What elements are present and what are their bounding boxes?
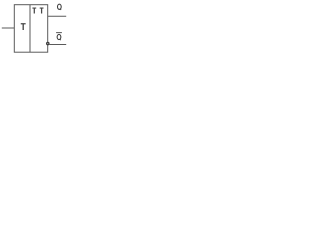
overline of Q-bar xyxy=(56,32,62,34)
pin label T xyxy=(21,23,26,30)
node Q label xyxy=(58,4,62,10)
input-field divider xyxy=(29,5,31,53)
flip-flop body U1 xyxy=(14,5,47,53)
wire Q output xyxy=(48,15,66,17)
label TT letter 1 xyxy=(32,7,36,13)
wire T input xyxy=(2,27,15,29)
wire Q-bar output xyxy=(49,44,66,46)
inversion bubble xyxy=(47,42,49,44)
node Q-bar label xyxy=(57,34,61,40)
label TT letter 2 xyxy=(40,7,44,13)
